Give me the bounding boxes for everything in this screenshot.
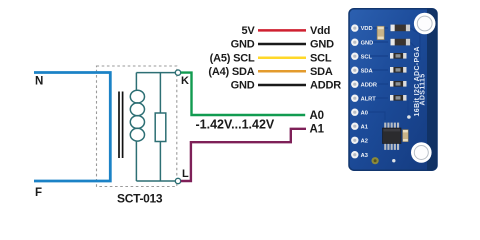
svg-text:-1.42V...1.42V: -1.42V...1.42V — [196, 118, 275, 132]
svg-text:VDD: VDD — [361, 26, 373, 32]
svg-text:L: L — [182, 168, 189, 180]
svg-text:SCL: SCL — [361, 54, 373, 60]
svg-text:GND: GND — [361, 40, 374, 46]
svg-text:ALRT: ALRT — [361, 96, 377, 102]
svg-text:ADS1115: ADS1115 — [419, 73, 426, 105]
svg-text:GND: GND — [310, 39, 334, 51]
svg-text:SCL: SCL — [310, 52, 332, 64]
svg-text:SDA: SDA — [361, 68, 373, 74]
svg-text:GND: GND — [231, 80, 255, 92]
svg-text:GND: GND — [231, 39, 255, 51]
svg-text:SCT-013: SCT-013 — [117, 192, 163, 206]
svg-text:A3: A3 — [361, 153, 368, 159]
svg-text:K: K — [181, 75, 189, 87]
svg-text:(A4) SDA: (A4) SDA — [208, 66, 254, 78]
svg-text:A0: A0 — [361, 110, 368, 116]
svg-text:A1: A1 — [361, 124, 368, 130]
svg-text:F: F — [35, 187, 42, 199]
svg-text:5V: 5V — [241, 25, 255, 37]
svg-text:SDA: SDA — [310, 66, 333, 78]
svg-text:N: N — [35, 76, 43, 88]
svg-text:A1: A1 — [310, 123, 325, 135]
svg-text:Vdd: Vdd — [310, 25, 330, 37]
svg-text:ADDR: ADDR — [310, 80, 341, 92]
svg-text:A2: A2 — [361, 138, 368, 144]
svg-text:(A5) SCL: (A5) SCL — [210, 52, 255, 64]
svg-text:A0: A0 — [310, 110, 324, 122]
svg-text:ADDR: ADDR — [361, 82, 377, 88]
